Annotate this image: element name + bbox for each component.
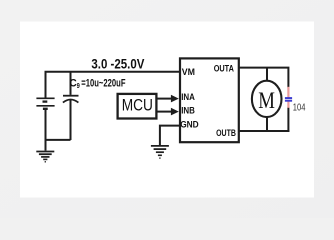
svg-text:INA: INA — [181, 92, 195, 102]
svg-text:MCU: MCU — [122, 95, 153, 114]
svg-text:=10u~220uF: =10u~220uF — [81, 77, 125, 89]
svg-text:OUTB: OUTB — [216, 128, 236, 139]
svg-text:9: 9 — [77, 83, 80, 90]
svg-text:3.0 -25.0V: 3.0 -25.0V — [91, 56, 145, 72]
svg-text:INB: INB — [181, 106, 195, 116]
svg-text:VM: VM — [182, 67, 195, 77]
svg-text:OUTA: OUTA — [214, 64, 234, 75]
svg-text:GND: GND — [180, 120, 199, 130]
svg-text:104: 104 — [293, 102, 306, 113]
svg-text:M: M — [258, 88, 275, 114]
